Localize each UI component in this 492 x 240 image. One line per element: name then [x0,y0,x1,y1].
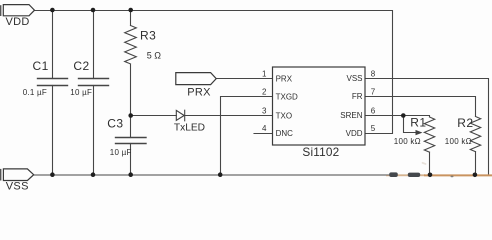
svg-text:C1: C1 [33,59,49,73]
svg-text:VSS: VSS [346,74,362,83]
svg-text:R1: R1 [410,115,426,129]
svg-text:Si1102: Si1102 [302,145,339,159]
svg-text:1: 1 [262,70,267,79]
svg-text:SREN: SREN [340,111,362,120]
svg-text:4: 4 [262,124,267,133]
svg-text:FR: FR [352,92,363,101]
svg-text:5 Ω: 5 Ω [147,50,162,60]
svg-text:VSS: VSS [6,181,29,193]
svg-text:C3: C3 [107,117,123,131]
svg-text:7: 7 [371,87,376,96]
svg-text:R2: R2 [457,116,473,130]
svg-text:0.1 µF: 0.1 µF [23,88,47,97]
svg-text:3: 3 [262,107,267,116]
svg-text:C2: C2 [73,59,89,73]
svg-text:10 µF: 10 µF [110,148,132,157]
svg-text:VDD: VDD [6,16,30,28]
svg-text:100 kΩ: 100 kΩ [445,137,472,146]
svg-text:TxLED: TxLED [174,123,205,134]
svg-text:2: 2 [262,87,267,96]
svg-text:TXO: TXO [276,111,292,120]
svg-text:10 µF: 10 µF [70,88,92,97]
svg-text:PRX: PRX [187,86,211,98]
svg-text:DNC: DNC [276,129,294,138]
svg-text:5: 5 [371,124,376,133]
svg-text:6: 6 [371,107,376,116]
svg-text:R3: R3 [140,29,156,43]
svg-text:VDD: VDD [346,129,363,138]
svg-text:100 kΩ: 100 kΩ [394,137,421,146]
svg-text:TXGD: TXGD [276,92,298,101]
svg-text:8: 8 [371,69,376,78]
svg-text:PRX: PRX [276,74,293,83]
